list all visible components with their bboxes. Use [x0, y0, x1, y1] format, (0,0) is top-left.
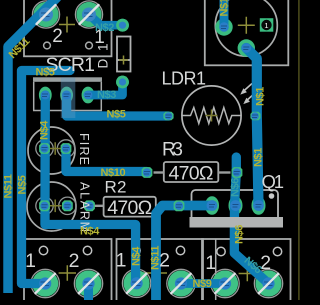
SCR1 pin circle 1 — [86, 42, 93, 49]
buzzer pad inners — [219, 22, 229, 32]
svg-text:N$3: N$3 — [97, 89, 116, 101]
connector J left edge — [33, 82, 35, 111]
wire N$3 connector pad3 to D1 bottom — [88, 82, 123, 95]
D1 origin cross — [119, 56, 128, 65]
SCR1 pad 1 — [76, 2, 101, 27]
wire N$9 block X2 pad2 to block X3 pad1 — [181, 279, 225, 288]
resistor R3 body — [164, 162, 219, 182]
R2 lead left — [92, 205, 104, 207]
block X2 origin cross — [141, 265, 167, 281]
FIRE pad arcs — [36, 140, 53, 157]
svg-text:N$4: N$4 — [130, 246, 142, 266]
svg-text:N$6: N$6 — [234, 225, 246, 244]
block X3 pad 1 ring — [211, 269, 239, 297]
terminal pad inners — [39, 277, 51, 289]
block X1 wire circle 1 — [39, 246, 47, 254]
octagon pads redrawn over traces — [163, 112, 173, 120]
svg-text:2: 2 — [69, 250, 80, 272]
svg-text:1: 1 — [205, 252, 216, 274]
SCR1 pad 2 — [33, 2, 58, 27]
Q1 pad 2 — [229, 196, 243, 215]
block X3 pad 1 — [212, 270, 238, 296]
block X3 pad2 slash — [259, 274, 278, 293]
svg-text:N$5: N$5 — [107, 109, 126, 121]
svg-text:R2: R2 — [105, 178, 127, 197]
wire N$11 Q1 pad1 to R2 right to bottom — [156, 206, 212, 303]
buzzer square pad hole — [261, 20, 271, 30]
svg-text:N$1: N$1 — [255, 87, 267, 106]
wire N$1 buzzer pad2 to LDR right to Q1 pad3 — [246, 48, 258, 206]
via D1 top — [116, 19, 129, 32]
FIRE origin cross — [49, 142, 62, 155]
wire N$5 connector pad2 to LDR left — [67, 95, 169, 116]
SCR1 pad2 slash — [37, 5, 56, 24]
block X2 wire circle 1 — [132, 246, 140, 254]
svg-text:N$11: N$11 — [2, 174, 14, 198]
LDR pad inners — [165, 112, 173, 120]
svg-text:N$11: N$11 — [150, 246, 162, 270]
connector pad 2 — [60, 87, 73, 104]
terminal block X3 inner line — [215, 239, 217, 303]
connector J top bar — [33, 77, 102, 82]
wire N$4 ALARM pad1 to block X2 pad 1 — [45, 206, 136, 283]
ALARM circle — [27, 182, 76, 231]
block X2 pad 1 — [124, 270, 150, 296]
terminal block X3 outline — [202, 239, 291, 303]
SCR1 pad2 inner — [39, 8, 53, 22]
block X1 pad 2 ring — [74, 269, 102, 297]
diode D1 band — [117, 59, 131, 61]
block X2 pad 2 — [168, 270, 194, 296]
SCR1 pin circle 2 — [44, 42, 51, 49]
LDR1 origin cross — [206, 110, 218, 122]
FIRE pad inners — [40, 144, 48, 152]
connector J bottom line — [33, 110, 102, 112]
svg-text:N$10: N$10 — [101, 167, 126, 179]
diode D1 body — [117, 37, 131, 72]
block X3 pad1 slash — [215, 274, 234, 293]
D1 bottom via redraw — [116, 76, 129, 89]
via D1 bottom — [116, 76, 129, 89]
pad name squiggles — [41, 13, 274, 286]
buzzer pad 1 — [215, 18, 232, 35]
R3 lead left — [154, 171, 164, 173]
buzzer pad 2 — [238, 39, 255, 56]
buzzer origin cross — [238, 17, 255, 34]
block X2 pad2 slash — [171, 274, 190, 293]
terminal block X2 outline — [117, 239, 204, 303]
transistor Q1 tab — [190, 217, 284, 228]
block X1 origin cross — [59, 265, 76, 281]
wire N$1 buzzer pad1 up — [220, 0, 229, 27]
wire N$2 SCR1 pad1 to D1 — [89, 15, 123, 26]
block X3 wire circle 2 — [273, 247, 281, 255]
terminal block X1 outline — [24, 239, 112, 303]
R2 lead right — [156, 205, 172, 207]
block X1 pad2 slash — [79, 274, 98, 293]
wire N$5 stub + left vertical to block X1 pad 1 — [22, 71, 71, 284]
svg-text:N$4: N$4 — [80, 225, 100, 237]
connector pad 1 — [39, 87, 52, 104]
svg-text:2: 2 — [52, 26, 63, 47]
SCR1 package outline — [24, 0, 112, 56]
block X1 pad 1 — [32, 270, 58, 296]
SCR1 pad 2 ring — [32, 1, 59, 28]
Q1 pad inners — [207, 200, 218, 211]
svg-text:N$5: N$5 — [36, 67, 55, 79]
svg-text:N$2: N$2 — [95, 22, 114, 34]
ALARM pad arcs — [36, 197, 53, 214]
svg-text:N$1: N$1 — [218, 0, 230, 17]
board dimension edge — [298, 0, 299, 300]
block X2 wire circle 2 — [176, 246, 184, 254]
svg-text:N$1: N$1 — [252, 148, 264, 167]
svg-text:N$5: N$5 — [16, 175, 28, 194]
resistor R2 body — [104, 197, 156, 217]
FIRE circle — [28, 127, 75, 174]
block X3 wire circle 1 — [217, 247, 225, 255]
block X3 pad 2 — [255, 270, 281, 296]
svg-text:1: 1 — [264, 21, 268, 30]
svg-text:N$9: N$9 — [193, 278, 212, 290]
svg-text:LDR1: LDR1 — [162, 68, 207, 88]
SCR1 pad1 slash — [80, 5, 99, 24]
Q1 pad 3 — [252, 196, 266, 215]
block X3 pad 2 ring — [254, 269, 282, 297]
wire stub block X1 pad2 down — [84, 284, 93, 303]
ALARM origin cross — [49, 200, 62, 213]
svg-text:FIRE: FIRE — [77, 133, 91, 165]
block X1 wire circle 2 — [83, 246, 91, 254]
svg-text:470Ω: 470Ω — [169, 162, 214, 184]
LDR1 light arrow 2 head — [243, 98, 250, 104]
block X3 origin cross — [239, 266, 256, 282]
buzzer SG1 square outline — [205, 0, 288, 65]
buzzer SG1 circle — [215, 0, 277, 56]
connector J right edge — [100, 82, 102, 111]
svg-text:1: 1 — [25, 250, 36, 272]
svg-text:1: 1 — [116, 250, 127, 272]
block X2 pad 2 ring — [167, 269, 195, 297]
R3 pad inners — [143, 168, 151, 176]
block X1 pad 2 — [75, 270, 101, 296]
connector pad 3 — [82, 87, 95, 104]
svg-text:Q1: Q1 — [262, 171, 285, 192]
svg-text:R3: R3 — [162, 140, 183, 161]
SCR1 pad1 inner — [82, 8, 96, 22]
connector pad inners — [41, 91, 50, 100]
SCR1 origin cross — [59, 17, 75, 33]
highlighted net band over connector pad2 — [61, 78, 76, 119]
svg-text:2: 2 — [260, 252, 271, 274]
buzzer square pad — [260, 18, 274, 32]
wire N$10 FIRE pad2 to R3 left — [66, 149, 147, 172]
wire N$6 R3 right to Q1 pad2 to block X3 pad1 — [234, 157, 268, 284]
block X1 pad1 slash — [36, 274, 55, 293]
svg-text:N$6: N$6 — [230, 178, 242, 197]
block X2 pad 1 ring — [122, 269, 150, 297]
Q1 pin1 dot — [269, 193, 275, 199]
transistor Q1 outline — [192, 190, 279, 221]
LDR1 resistor zigzag — [182, 108, 241, 124]
R3 lead right — [218, 171, 230, 173]
block X2 pad1 slash — [127, 274, 146, 293]
R2 pad inners — [85, 202, 93, 210]
D1 top via redraw — [116, 19, 129, 32]
wire N$4 connector pad1 to FIRE to ALARM — [40, 95, 50, 206]
LDR1 circle — [182, 86, 241, 145]
svg-text:N$4: N$4 — [38, 120, 50, 140]
LDR1 light arrow 1 — [242, 84, 255, 103]
block X1 pad 1 ring — [31, 269, 59, 297]
svg-text:470Ω: 470Ω — [107, 197, 152, 219]
wire N$11 SCR1 pad2 to bottom left — [8, 0, 58, 293]
Q1 pad 1 — [205, 196, 219, 215]
SCR1 pad 1 ring — [75, 1, 102, 28]
ALARM pad inners — [40, 202, 48, 210]
